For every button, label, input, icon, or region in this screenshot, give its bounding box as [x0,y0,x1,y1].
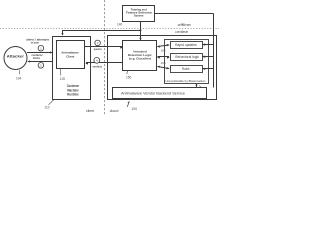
label client [86,109,94,113]
ref 140 [117,22,123,26]
wire: container down to backend service [195,84,197,87]
wire: verdicts [85,62,123,68]
ref 110 leader [45,100,54,110]
box: Customer Machine Runtime [53,37,91,100]
svg-text:System: System [134,14,144,18]
svg-text:blocks: blocks [33,56,40,60]
box: Training and Feature Selection System [123,6,155,22]
wire: contacts/blocks [27,53,53,62]
wire: update line into rules [202,68,214,70]
box: Behavioral logic [171,54,203,61]
svg-text:150: 150 [126,76,132,80]
ref 162 [161,49,166,53]
svg-text:164: 164 [161,61,166,65]
wire: update line into rapid updates [202,44,214,46]
box: cloud detection system outer [108,36,217,100]
box: Rapid updates [171,42,203,49]
node: circled step 2 [38,63,44,69]
node: circled step 1 [38,45,44,51]
wire: alerts/attempts to train [26,37,53,53]
box: Antimalware Vendor Backend Service [113,88,207,99]
svg-text:Unpredictable by Blackmailers: Unpredictable by Blackmailers [166,79,206,83]
box: container unpredictable [165,40,209,84]
node: Attacker circle [4,47,27,70]
svg-text:Runtime: Runtime [67,93,78,97]
svg-text:104: 104 [16,76,22,80]
ref 172 leader [200,86,206,92]
box: Rules [171,66,203,73]
label offline [178,22,192,27]
svg-text:120: 120 [60,77,66,81]
svg-text:Rules: Rules [182,67,190,71]
box: Antimalware Client [57,41,85,69]
ref 120 leader [60,69,66,81]
ref 100 arrow [127,101,137,111]
offline/online horizontal dotted divider [0,28,219,30]
svg-text:110: 110 [45,106,50,110]
svg-text:Behavioral logic: Behavioral logic [175,55,199,59]
svg-text:client: client [86,109,94,113]
wire: bidirectional to rapid updates [157,44,170,48]
node: circled step 4 [94,57,100,63]
svg-text:(e.g. Classifier): (e.g. Classifier) [129,56,151,60]
svg-text:verdicts: verdicts [93,64,103,68]
wire: training system right to update line [155,14,214,88]
svg-text:Antimalware Vendor Backend Ser: Antimalware Vendor Backend Service [121,91,185,95]
wire: branch left into customer machine [61,30,141,36]
svg-text:Rapid updates: Rapid updates [175,43,197,47]
node: circled step 3 [95,40,101,46]
svg-text:online: online [175,29,189,34]
wire: queries [85,46,124,51]
svg-text:Client: Client [66,54,74,58]
wire: update line into behavioral logic [202,56,214,58]
wire: bidirectional to behavioral logic [157,56,170,58]
svg-text:162: 162 [161,49,166,53]
svg-text:cloud: cloud [110,109,119,113]
svg-text:100: 100 [131,107,137,111]
box: Untrained Detection Logic [123,41,157,71]
label online [175,29,189,34]
label cloud [110,109,119,113]
svg-text:queries: queries [94,47,102,51]
svg-text:140: 140 [117,22,123,26]
ref 150 leader [126,71,132,80]
ref 104 leader [16,70,22,80]
svg-text:offline: offline [178,22,192,27]
svg-text:Attacker: Attacker [7,54,25,59]
client/cloud vertical dashed divider [104,0,106,115]
ref 164 [161,61,166,65]
wire: training system down to detection logic [139,22,141,41]
wire: bidirectional to rules [157,66,170,70]
svg-text:to train: to train [31,40,39,44]
